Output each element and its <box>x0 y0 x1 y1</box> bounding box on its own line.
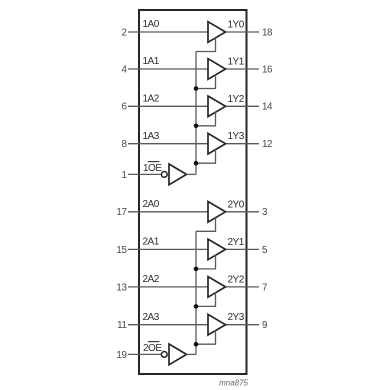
junction dot on 1OE bus <box>194 86 199 91</box>
wire output 1Y3 (pin 12) <box>226 143 260 145</box>
svg-text:2A3: 2A3 <box>143 312 160 323</box>
svg-text:16: 16 <box>262 64 273 75</box>
svg-text:2: 2 <box>121 27 126 38</box>
wire enable branch to buffer 1Y1 <box>196 75 216 89</box>
svg-text:7: 7 <box>262 282 267 293</box>
buffer 1Y0 triangle <box>208 22 226 43</box>
svg-text:1Y0: 1Y0 <box>228 20 245 31</box>
svg-text:2A0: 2A0 <box>143 199 160 210</box>
wire input 2A0 (pin 17) <box>128 211 208 213</box>
inverter 2OE input bubble <box>161 352 167 358</box>
svg-text:1Y1: 1Y1 <box>228 57 245 68</box>
wire enable branch to buffer 1Y0 <box>196 38 216 52</box>
wire enable branch to buffer 2Y1 <box>196 255 216 269</box>
wire enable bus 2OE <box>195 231 197 354</box>
buffer 2Y3 triangle <box>208 314 226 335</box>
wire input 1A1 (pin 4) <box>128 68 208 70</box>
svg-text:1A3: 1A3 <box>143 131 160 142</box>
svg-text:2Y3: 2Y3 <box>228 312 245 323</box>
junction dot on 2OE bus <box>194 342 199 347</box>
svg-text:4: 4 <box>121 64 127 75</box>
wire output 1Y2 (pin 14) <box>226 105 260 107</box>
svg-text:12: 12 <box>262 139 272 150</box>
buffer 2Y2 triangle <box>208 277 226 298</box>
svg-text:1A0: 1A0 <box>143 19 160 30</box>
svg-text:1A1: 1A1 <box>143 56 160 67</box>
wire input 1A3 (pin 8) <box>128 143 208 145</box>
wire enable branch to buffer 2Y2 <box>196 293 216 307</box>
buffer 1Y3 triangle <box>208 133 226 154</box>
svg-text:1: 1 <box>121 170 126 181</box>
IC body outline <box>139 10 247 374</box>
svg-text:2Y1: 2Y1 <box>228 237 245 248</box>
svg-text:15: 15 <box>116 245 127 256</box>
svg-text:8: 8 <box>121 139 127 150</box>
wire input 2A1 (pin 15) <box>128 248 208 250</box>
inverter 2OE triangle <box>169 344 187 365</box>
buffer 1Y1 triangle <box>208 59 226 80</box>
buffer 2Y1 triangle <box>208 239 226 260</box>
wire input 2A3 (pin 11) <box>128 324 208 326</box>
svg-text:3: 3 <box>262 207 268 218</box>
svg-text:1Y3: 1Y3 <box>228 131 245 142</box>
svg-text:18: 18 <box>262 27 273 38</box>
wire enable branch to buffer 1Y2 <box>196 112 216 126</box>
svg-text:13: 13 <box>116 282 127 293</box>
wire enable bus 1OE <box>195 52 197 175</box>
junction dot on 2OE bus <box>194 304 199 309</box>
svg-text:2OE: 2OE <box>143 343 162 354</box>
buffer 2Y0 triangle <box>208 202 226 223</box>
svg-text:1OE: 1OE <box>143 163 162 174</box>
wire enable branch to buffer 1Y3 <box>196 149 216 163</box>
svg-text:17: 17 <box>116 207 126 218</box>
wire output 1Y1 (pin 16) <box>226 68 260 70</box>
junction dot on 1OE bus <box>194 124 199 129</box>
wire output 2Y2 (pin 7) <box>226 286 260 288</box>
svg-text:1Y2: 1Y2 <box>228 94 245 105</box>
svg-text:2Y2: 2Y2 <box>228 274 245 285</box>
wire input 1OE (pin 1) <box>128 173 161 175</box>
junction dot on 1OE bus <box>194 161 199 166</box>
wire 2OE inverter output <box>187 353 197 355</box>
buffer 1Y2 triangle <box>208 96 226 117</box>
svg-text:19: 19 <box>116 350 126 361</box>
svg-text:11: 11 <box>117 320 126 331</box>
inverter 1OE input bubble <box>161 172 167 178</box>
svg-text:14: 14 <box>262 102 273 113</box>
svg-text:9: 9 <box>262 320 267 331</box>
svg-text:1A2: 1A2 <box>143 94 160 105</box>
wire enable branch to buffer 2Y0 <box>196 217 216 231</box>
inverter 1OE triangle <box>169 164 187 185</box>
wire input 1A2 (pin 6) <box>128 105 208 107</box>
svg-text:6: 6 <box>121 102 127 113</box>
wire input 2A2 (pin 13) <box>128 286 208 288</box>
svg-text:2A1: 2A1 <box>143 237 160 248</box>
svg-text:2Y0: 2Y0 <box>228 199 245 210</box>
wire input 1A0 (pin 2) <box>128 31 208 33</box>
wire input 2OE (pin 19) <box>128 353 161 355</box>
wire output 2Y0 (pin 3) <box>226 211 260 213</box>
svg-text:5: 5 <box>262 245 268 256</box>
wire output 1Y0 (pin 18) <box>226 31 260 33</box>
wire enable branch to buffer 2Y3 <box>196 330 216 344</box>
wire output 2Y1 (pin 5) <box>226 248 260 250</box>
wire output 2Y3 (pin 9) <box>226 324 260 326</box>
wire 1OE inverter output <box>187 173 197 175</box>
svg-text:mna875: mna875 <box>219 379 248 388</box>
svg-text:2A2: 2A2 <box>143 274 160 285</box>
junction dot on 2OE bus <box>194 267 199 272</box>
